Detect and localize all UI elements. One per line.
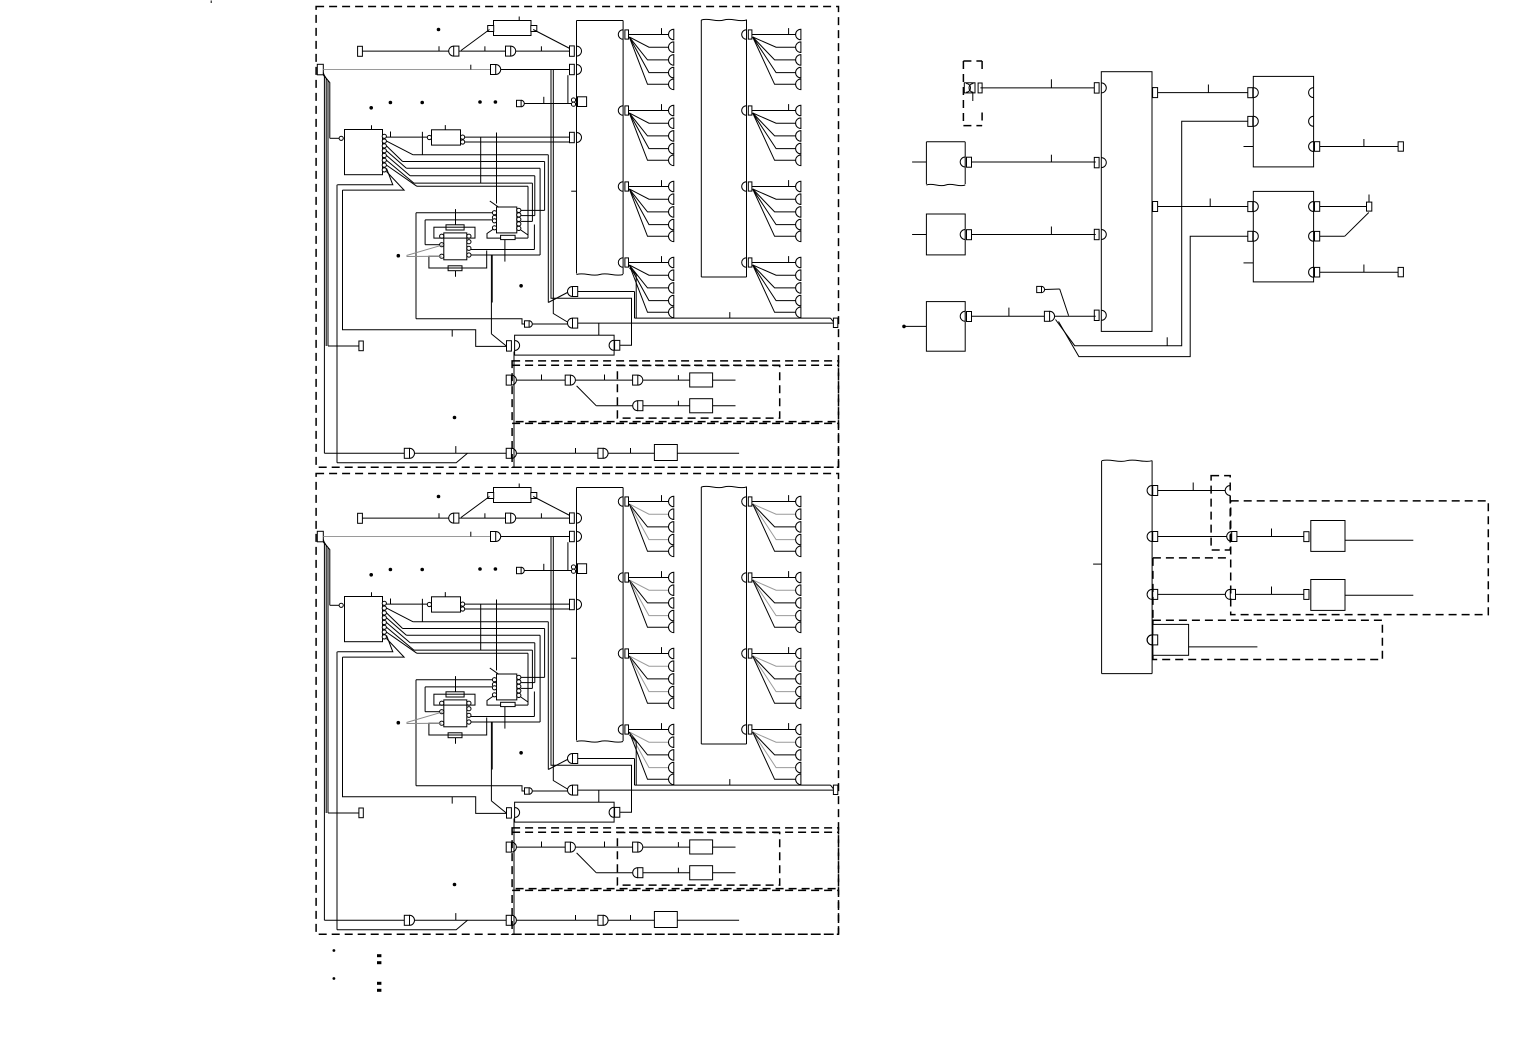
routing trace t4 2 [471, 692, 534, 717]
wire S4 to X3 [972, 227, 1096, 235]
branch group X2-2 2 [742, 571, 801, 633]
connector X3-L4 [1094, 310, 1106, 320]
wire row1 segment a 2 [362, 513, 448, 518]
connector P2 on panel X1 2 [570, 531, 582, 541]
terminal T3 1 [833, 318, 837, 327]
bundle wire w5 2 [387, 627, 533, 650]
lamp box L1 2 [690, 840, 713, 854]
sensor box S4 [926, 214, 965, 255]
connector pair J2 1 [506, 46, 516, 56]
actuator M4 [1311, 580, 1345, 611]
junction panel X1 2 [577, 488, 624, 743]
rail R3 1 [323, 75, 328, 347]
connector X4-R2 [1147, 532, 1158, 542]
wire K to heater b 1 [491, 255, 506, 346]
connector pair J7 1 [565, 375, 575, 385]
connector pair J7 2 [565, 842, 575, 852]
heater unit H1 [515, 335, 615, 355]
wire plug row 1 [524, 97, 571, 104]
wire row B 1 [337, 453, 468, 463]
IC2 right pins 1 [517, 208, 521, 230]
routing trace t3 1 [429, 251, 487, 269]
terminal T1 block 2 [358, 513, 363, 523]
M1 right pins [1309, 88, 1314, 127]
mark dots row 1 [369, 100, 497, 109]
wire K to heater a 2 [343, 657, 507, 813]
connector pair J12 2 [598, 915, 608, 925]
filter module Z2 [427, 592, 464, 612]
ground leader lines 1 [407, 245, 444, 257]
terminal T4 1 [359, 341, 363, 351]
fuse F1 [488, 17, 537, 36]
rail R4 2 [336, 652, 338, 930]
connector pair J6 2 [506, 842, 516, 852]
connector X4-R1 [1147, 486, 1158, 496]
terminal T7 [1398, 267, 1403, 276]
bundle wire w4 1 [387, 156, 535, 176]
wire J13 to X3 [1055, 315, 1096, 317]
legend mark row 2 [333, 977, 381, 991]
control module M2 [1253, 191, 1313, 282]
wire row A b 2 [415, 913, 506, 920]
bundle wire w1 1 [387, 141, 549, 155]
connector X3-L2 [1094, 157, 1106, 167]
routing trace t1 1 [416, 213, 493, 319]
bundle wire w2 drop 2 [521, 629, 545, 678]
dashed option box O2 2 [512, 890, 838, 934]
terminal T4 2 [359, 808, 363, 818]
crossing wire v2 2 [480, 604, 482, 650]
wire K to heater b 2 [491, 722, 506, 813]
bundle wire w8 1 [343, 172, 405, 191]
connector P1 on panel X1 2 [570, 513, 582, 523]
branch group X1-2 1 [618, 104, 674, 166]
branch group X2-4 1 [742, 256, 801, 318]
IC2 bias resistor 1 [501, 235, 515, 239]
wire fuse right lead 2 [533, 497, 570, 516]
vertical link heater to O2 1 [513, 352, 515, 468]
IC1 bottom resistor 1 [448, 266, 462, 277]
wire O1 diagonal 1 [577, 386, 633, 406]
heater left connector 2 [507, 808, 520, 819]
wire J5 to T3 2 [578, 789, 834, 791]
wire O1 row1 a 2 [517, 842, 566, 848]
lamp box L2 1 [690, 399, 713, 413]
wire K pin1 to Z 1 [387, 132, 428, 138]
wire J4 right 2 [578, 759, 635, 786]
IC2 left pins 1 [492, 211, 496, 230]
IC2 bias stub 1 [504, 240, 506, 262]
ground leader dot 1 [397, 254, 401, 258]
connector X3-L3 [1094, 229, 1106, 239]
service plug S2 1 [525, 321, 533, 327]
sensor box S5 [926, 302, 965, 352]
connector X3-R2 [1152, 202, 1158, 212]
wire fuse left lead 2 [461, 497, 490, 518]
connector pair J11 1 [506, 448, 516, 458]
diagnostic connector D1 1 [571, 97, 586, 107]
controller IC1 2 [444, 700, 467, 727]
terminal T3 2 [833, 785, 837, 794]
wire J14 to M3 [1237, 529, 1304, 537]
wire K left pin to rail 1 [330, 137, 339, 139]
mark dot c 2 [453, 883, 457, 887]
dashed option box O1 inner 2 [617, 833, 779, 886]
mark dots row 2 [369, 567, 497, 576]
bundle wire w5 1 [387, 160, 533, 183]
wire T4 feed 2 [328, 812, 359, 814]
filter module Z1 [427, 125, 464, 145]
wire O1 row1 c 2 [643, 842, 690, 847]
bundle wire w1 drop 2 [548, 622, 567, 770]
rail R4 1 [336, 185, 338, 463]
branch group X1-2 2 [618, 571, 673, 633]
bundle wire w3 drop 1 [539, 168, 541, 255]
rail R2 1 [323, 74, 326, 347]
dashed option box O1 top rail 2 [512, 831, 838, 833]
branch group X2-1 1 [742, 28, 801, 90]
ground leader dot 2 [397, 721, 401, 725]
crossing wire v1 1 [421, 132, 423, 155]
rail R3 2 [323, 542, 328, 814]
drop to heater box 1 [598, 323, 600, 335]
IC2 left pins 2 [492, 678, 496, 697]
wire row A a 2 [324, 919, 404, 921]
connector pair J14 [1227, 532, 1237, 542]
wire Z out lower 1 [465, 141, 570, 143]
service plug S2 2 [525, 788, 533, 794]
connector pair J12 1 [598, 448, 608, 458]
junction panel X2 2 [701, 486, 746, 744]
wire X4R2 [1158, 536, 1227, 538]
wire S2 feed 2 [416, 786, 525, 791]
wire O1 row2 a 1 [643, 401, 690, 406]
drop to heater box 2 [598, 790, 600, 802]
connector pair J1 1 [449, 46, 459, 56]
M2 bottom stub [1244, 262, 1254, 264]
wire M5 out [1189, 646, 1258, 648]
routing trace t1 2 [416, 680, 493, 786]
collector wire A 2 [630, 735, 834, 789]
sensor S3 stub [912, 161, 926, 163]
panel X1 side stub 1 [571, 190, 577, 192]
branch group X1-4 2 [618, 723, 674, 785]
wire row A c 1 [517, 448, 598, 453]
wire row A c 2 [517, 915, 598, 920]
wire row B 2 [337, 920, 468, 930]
wire Z out upper 1 [465, 136, 570, 138]
IC2 bias resistor 2 [501, 702, 515, 706]
legend mark row 1 [333, 949, 381, 964]
connector X3-L1 [1094, 83, 1106, 93]
branch group X1-3 2 [618, 647, 673, 709]
branch wire b1 [1056, 121, 1248, 345]
wire row2 segment b 1 [501, 69, 570, 71]
bundle wire w1 2 [387, 608, 549, 622]
wire row S2 1 [532, 323, 567, 325]
branch group X1-1 1 [618, 28, 673, 90]
connector pair J6 1 [506, 375, 516, 385]
junction box X4 [1102, 460, 1153, 674]
resistor box RB 1 [654, 445, 677, 461]
branch group X1-4 1 [618, 256, 673, 318]
connector P3 on panel X1 1 [570, 132, 582, 142]
dashed link line [1153, 558, 1230, 620]
connector pair J10 1 [404, 448, 414, 458]
connector X4-R3 [1147, 589, 1158, 599]
dashed option box O1 2 [512, 828, 838, 889]
wire row1 segment c 1 [516, 46, 570, 51]
wire O1 row1 a 1 [517, 375, 566, 381]
wire X3R2 to M2 [1158, 199, 1248, 207]
actuator M3 [1311, 521, 1345, 552]
crossing wire v3 1 [496, 133, 498, 204]
wire K to heater a 1 [343, 190, 507, 346]
wire M4 out [1345, 594, 1413, 596]
branch group X2-3 1 [742, 180, 801, 242]
connector M1-L2 [1248, 116, 1259, 126]
branch group X1-3 1 [618, 180, 674, 242]
bundle wire w4 drop 1 [521, 176, 535, 216]
bundle wire w7 1 [337, 168, 393, 185]
inline connector C1 [964, 83, 982, 101]
connector M1-L1 [1248, 88, 1259, 98]
connector pair J10 2 [404, 915, 414, 925]
dashed boundary of harness block 1 [316, 7, 838, 468]
IC2 right pins 2 [517, 675, 521, 697]
bundle wire w5 drop 1 [521, 183, 533, 221]
dashed connector bracket B1 [963, 61, 982, 126]
connector M2-R1 [1309, 202, 1320, 212]
connector X4-R4 [1147, 635, 1158, 645]
bundle wire w6 drop 2 [515, 653, 528, 705]
wire Z out lower 2 [465, 608, 570, 610]
wire M3 out [1345, 539, 1413, 541]
connector pair J8 1 [633, 375, 643, 385]
plug stub S1 2 [517, 567, 525, 573]
branch wire b2 [1059, 236, 1248, 356]
routing trace t3 2 [429, 718, 487, 736]
lamp box L1 1 [690, 373, 713, 387]
terminal T2 block 1 [317, 64, 323, 75]
wire M2R1 to T6 [1320, 206, 1367, 208]
relay module K1 pins [382, 134, 386, 172]
wire fuse right lead 1 [533, 30, 570, 49]
terminal T6 [1367, 195, 1372, 212]
wire X3R1 to M1 [1158, 85, 1248, 93]
IC2 bias stub 2 [504, 707, 506, 729]
bundle wire w7 2 [337, 635, 393, 652]
top margin tick [210, 1, 212, 4]
IC1 bottom resistor 2 [448, 733, 462, 744]
IC2 polarity stroke 2 [490, 668, 499, 674]
bundle wire w1 drop 1 [548, 155, 567, 303]
feeder v3 drop 1 [553, 70, 567, 323]
IC1 top resistor 1 [446, 209, 464, 230]
wire X4R1 [1158, 483, 1225, 491]
connector M1-R3 [1309, 142, 1320, 152]
crossing wire v2 1 [480, 137, 482, 183]
wire J15 to M4 [1236, 587, 1304, 595]
controller IC2 1 [497, 207, 517, 233]
connector M2-R3 [1309, 267, 1320, 277]
wire M2 to T7 [1320, 265, 1398, 273]
bundle wire w5 drop 2 [521, 650, 533, 688]
X4 left stub [1093, 563, 1102, 565]
dashed option box O2 1 [512, 423, 838, 467]
heater right connector 2 [609, 807, 620, 817]
rail R3b 1 [323, 75, 330, 138]
wire S6 drop [1045, 289, 1069, 316]
connector pair J8 2 [633, 842, 643, 852]
mark dot a 2 [437, 495, 441, 499]
connector pair J9 1 [633, 401, 643, 411]
connector M2-L2 [1248, 231, 1259, 241]
connector S4 out [960, 230, 971, 240]
connector M4 in [1304, 589, 1316, 599]
wire row S2 2 [532, 790, 567, 792]
feeder v2 drop 1 [551, 70, 632, 346]
connector pair J5 1 [568, 318, 578, 328]
connector M3 in [1304, 532, 1316, 542]
connector C2 [1225, 486, 1230, 496]
dashed option box O4 [1153, 620, 1383, 659]
bundle wire w8 2 [343, 639, 405, 658]
terminal T2 block 2 [317, 531, 323, 542]
branch group X2-3 2 [742, 647, 801, 709]
mark dot b 1 [519, 284, 523, 288]
wire S5 to J13 [972, 308, 1045, 317]
ground leader lines 2 [407, 712, 444, 724]
IC1 left pins 2 [440, 701, 444, 725]
bundle wire w2 2 [387, 613, 545, 629]
wire O1 row2 b 2 [713, 872, 736, 874]
plug stub S1 1 [517, 100, 525, 106]
wire X4R3 [1158, 593, 1225, 595]
routing trace t5 2 [471, 722, 540, 770]
dashed option box O3 [1231, 501, 1489, 615]
bundle wire w6 1 [387, 165, 529, 186]
connector M5 in [1147, 635, 1158, 645]
dashed bracket B2 [1211, 476, 1230, 550]
wire row A a 1 [324, 452, 404, 454]
junction panel X2 1 [701, 19, 746, 277]
bundle wire w2 1 [387, 146, 545, 162]
mark dot S5 [902, 325, 906, 329]
IC1 top resistor 2 [446, 676, 464, 697]
rail R2 2 [323, 541, 326, 814]
routing trace t4 1 [471, 225, 534, 250]
bundle wire w4 drop 2 [521, 643, 535, 683]
connector pair J5 2 [568, 785, 578, 795]
connector S5 out [960, 311, 971, 321]
sensor S4 stub [912, 234, 926, 236]
connector pair J3 2 [491, 532, 501, 542]
wire row A b 1 [415, 446, 506, 453]
feeder v2 drop 2 [551, 537, 632, 813]
IC2 bias left leg 2 [487, 696, 501, 705]
sensor box S3 [926, 142, 965, 186]
rail R3b 2 [323, 542, 330, 605]
control module M1 [1253, 76, 1313, 166]
connector M2-L1 [1248, 202, 1259, 212]
wire K pin1 to Z 2 [387, 599, 428, 605]
collector wire A 1 [630, 268, 834, 322]
IC1 left pins 1 [440, 234, 444, 258]
diagnostic connector D1 2 [571, 564, 586, 574]
relay module K2 pins [382, 601, 386, 639]
connector pair J11 2 [506, 915, 516, 925]
routing trace t5 1 [471, 255, 540, 303]
vertical link T2a 2 [567, 542, 569, 570]
wire J5 to T3 1 [578, 322, 834, 324]
crossing wire v1 2 [421, 599, 423, 622]
wire K left pin to rail 2 [330, 604, 339, 606]
connector pair J1 2 [449, 513, 459, 523]
dashed option box O1 top rail 1 [512, 364, 838, 366]
bundle wire w3 drop 2 [539, 635, 541, 722]
mark dot b 2 [519, 751, 523, 755]
feeder v3 drop 2 [553, 537, 567, 790]
bundle wire w4 2 [387, 623, 535, 643]
wire O1 row1 b 2 [576, 842, 633, 848]
crossing wire v3 2 [496, 600, 498, 671]
wire M1 to T5 [1320, 139, 1398, 147]
wire plug row 2 [524, 564, 571, 571]
IC1 right pins 2 [467, 701, 471, 724]
rail R1 1 [323, 73, 324, 454]
service plug S6 [1037, 286, 1045, 292]
connector P1 on panel X1 1 [570, 46, 582, 56]
bundle wire w6 2 [387, 632, 529, 653]
bundle wire w2 drop 1 [521, 162, 545, 211]
M1 bottom stub [1244, 146, 1254, 148]
wire O1 diagonal 2 [577, 853, 633, 873]
branch group X2-1 2 [742, 495, 801, 556]
wire row1 segment b 1 [459, 46, 506, 51]
mark dot a 1 [437, 28, 441, 32]
dashed option box O1 1 [512, 361, 838, 422]
wire O1 row1 b 1 [576, 375, 633, 381]
dashed option box O1 inner 1 [617, 366, 779, 419]
wire T4 feed 1 [328, 345, 359, 347]
connector pair J9 2 [633, 868, 643, 878]
connector P3 on panel X1 2 [570, 599, 582, 609]
wire J4 right 1 [578, 292, 635, 319]
wire S2 feed 1 [416, 319, 525, 324]
wire fuse left lead 1 [461, 30, 490, 51]
connector pair J13 [1044, 311, 1054, 321]
wire row1 segment b 2 [459, 513, 506, 518]
wire row1 segment c 2 [516, 513, 570, 518]
lamp box L2 2 [690, 866, 713, 880]
actuator M5 [1153, 624, 1189, 655]
wire row2 gray segment 1 [323, 65, 490, 70]
terminal T5 [1398, 142, 1403, 151]
branch group X2-2 1 [742, 104, 801, 166]
relay module K2 [339, 592, 382, 641]
sensor S5 stub [906, 325, 927, 327]
routing loop around IC1 2 [434, 694, 475, 705]
routing trace t2 2 [425, 687, 492, 712]
wire row2 gray segment 2 [323, 532, 490, 537]
routing loop around IC1 1 [434, 227, 475, 238]
rail R1 2 [323, 540, 324, 921]
wire O1 row1 d 1 [713, 379, 736, 381]
resistor box RB 2 [654, 912, 677, 928]
routing trace t2 1 [425, 220, 492, 245]
fuse F2 [488, 484, 537, 503]
